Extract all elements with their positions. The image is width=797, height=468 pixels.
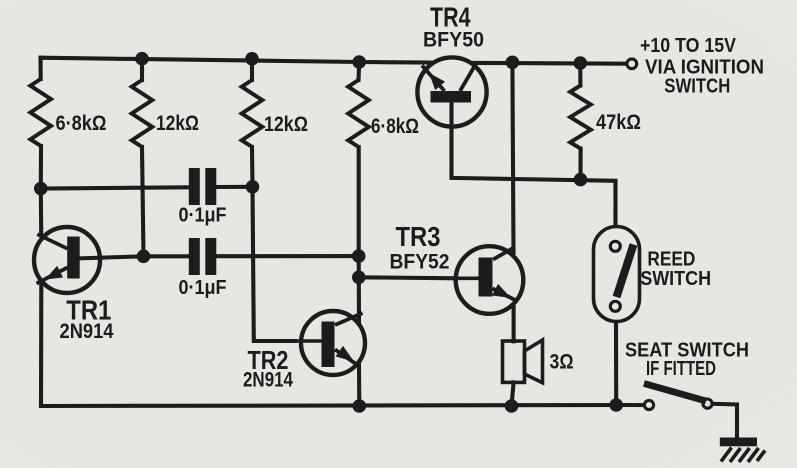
- terminal +supply open circle: [627, 59, 637, 69]
- junction C2 / R4 line: [352, 249, 366, 263]
- transistor TR2: [298, 311, 365, 375]
- transistor TR3: [456, 246, 524, 314]
- wire R4 lead down through nodes to bottom rail: [356, 62, 361, 80]
- junction TR1 base / R2 line: [137, 249, 151, 263]
- resistor 12k (second): [132, 80, 153, 147]
- wire left rail upper (R1 leads): [38, 58, 42, 79]
- wire TR3 emitter to speaker: [512, 307, 516, 342]
- junction top rail / TR3 collector line: [506, 56, 520, 70]
- junction 47k / TR4 base line: [574, 173, 588, 187]
- seat switch: [644, 384, 712, 410]
- wire TR3 base line: [359, 277, 457, 278]
- junction TR3 base / R4 line: [352, 271, 366, 285]
- junction bottom rail / reed switch: [609, 398, 623, 412]
- speaker 3 ohm: [503, 340, 543, 383]
- wire TR4 base down and across to reed switch: [452, 102, 616, 226]
- wire R3 lead and branch to TR2 base: [250, 59, 254, 80]
- junction top rail / 47k: [574, 56, 588, 70]
- junction bottom rail / speaker: [505, 399, 519, 413]
- resistor R 6.8k (left): [30, 79, 51, 146]
- resistor 47k: [570, 86, 591, 149]
- junction top rail / R4: [352, 55, 366, 69]
- wire TR1 base line to C2: [74, 256, 189, 258]
- wire node A line to C1: [41, 187, 189, 188]
- transistor TR1: [34, 227, 100, 293]
- capacitor C1 0.1uF plates: [189, 168, 217, 205]
- junction top rail / R3: [245, 52, 259, 66]
- transistor TR4: [417, 57, 486, 126]
- wire R2 leads: [140, 59, 144, 80]
- wire speaker to bottom rail: [512, 382, 514, 406]
- wire top rail left segment: [41, 58, 431, 63]
- wire TR2 emitter to bottom rail: [357, 365, 361, 406]
- capacitor C2 0.1uF plates: [189, 238, 217, 275]
- junction left rail / C1 line: [34, 182, 48, 196]
- junction bottom rail / TR2 emitter: [353, 399, 367, 413]
- ground: [720, 438, 765, 463]
- resistor 6.8k (fourth): [348, 80, 369, 147]
- junction top rail / R2: [135, 52, 149, 66]
- wire 47k leads: [578, 63, 582, 85]
- wire TR3 collector up to top rail: [512, 62, 513, 252]
- wire TR1 emitter to bottom rail: [39, 286, 43, 407]
- wire seat switch to ground: [713, 404, 737, 439]
- reed switch: [594, 227, 640, 322]
- wire top rail right segment: [474, 61, 626, 66]
- wire reed switch to bottom rail: [614, 323, 618, 405]
- resistor 12k (third): [242, 80, 263, 147]
- wire bottom rail: [41, 405, 643, 406]
- junction C1 / R3 line: [246, 180, 260, 194]
